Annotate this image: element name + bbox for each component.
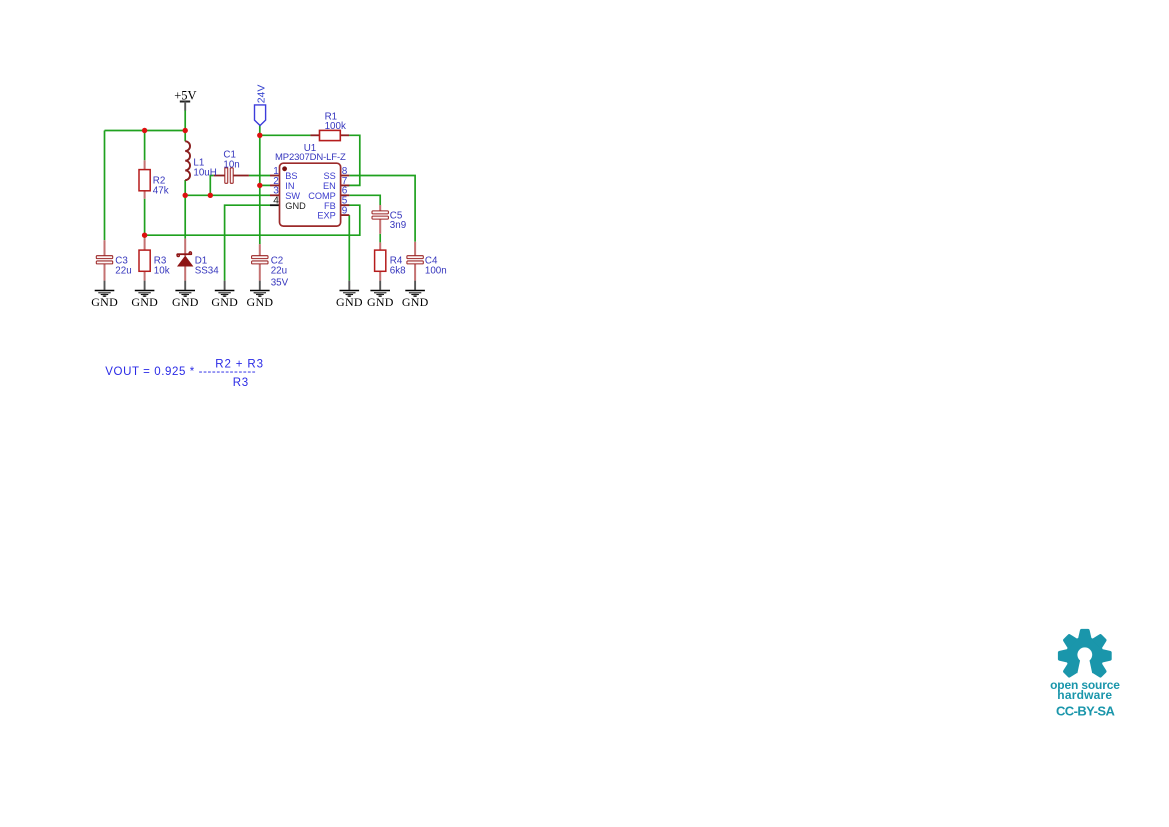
svg-text:100k: 100k [325,121,346,132]
svg-text:24V: 24V [255,85,267,104]
svg-text:EXP: EXP [317,211,335,221]
svg-text:R3: R3 [233,377,248,389]
svg-text:hardware: hardware [1057,688,1112,702]
svg-text:6k8: 6k8 [390,265,406,276]
svg-text:10uH: 10uH [193,167,216,178]
svg-text:22u: 22u [271,265,287,276]
svg-text:SW: SW [285,191,300,201]
svg-text:4: 4 [273,196,279,207]
svg-text:9: 9 [342,206,348,217]
svg-text:3n9: 3n9 [390,220,406,231]
svg-text:BS: BS [285,171,297,181]
svg-text:47k: 47k [153,185,169,196]
svg-text:CC-BY-SA: CC-BY-SA [1056,703,1116,718]
svg-text:100n: 100n [425,265,447,276]
svg-text:SS34: SS34 [195,265,220,276]
svg-text:EN: EN [323,181,336,191]
svg-text:MP2307DN-LF-Z: MP2307DN-LF-Z [275,152,346,163]
svg-text:+5V: +5V [174,88,196,102]
svg-text:SS: SS [324,171,336,181]
svg-text:GND: GND [285,201,306,211]
svg-text:R2 + R3: R2 + R3 [215,359,263,371]
svg-text:10k: 10k [154,265,170,276]
svg-text:22u: 22u [115,265,131,276]
svg-text:10n: 10n [223,159,239,170]
svg-text:COMP: COMP [308,191,336,201]
svg-text:35V: 35V [271,277,289,288]
svg-text:FB: FB [324,201,336,211]
svg-text:IN: IN [285,181,294,191]
